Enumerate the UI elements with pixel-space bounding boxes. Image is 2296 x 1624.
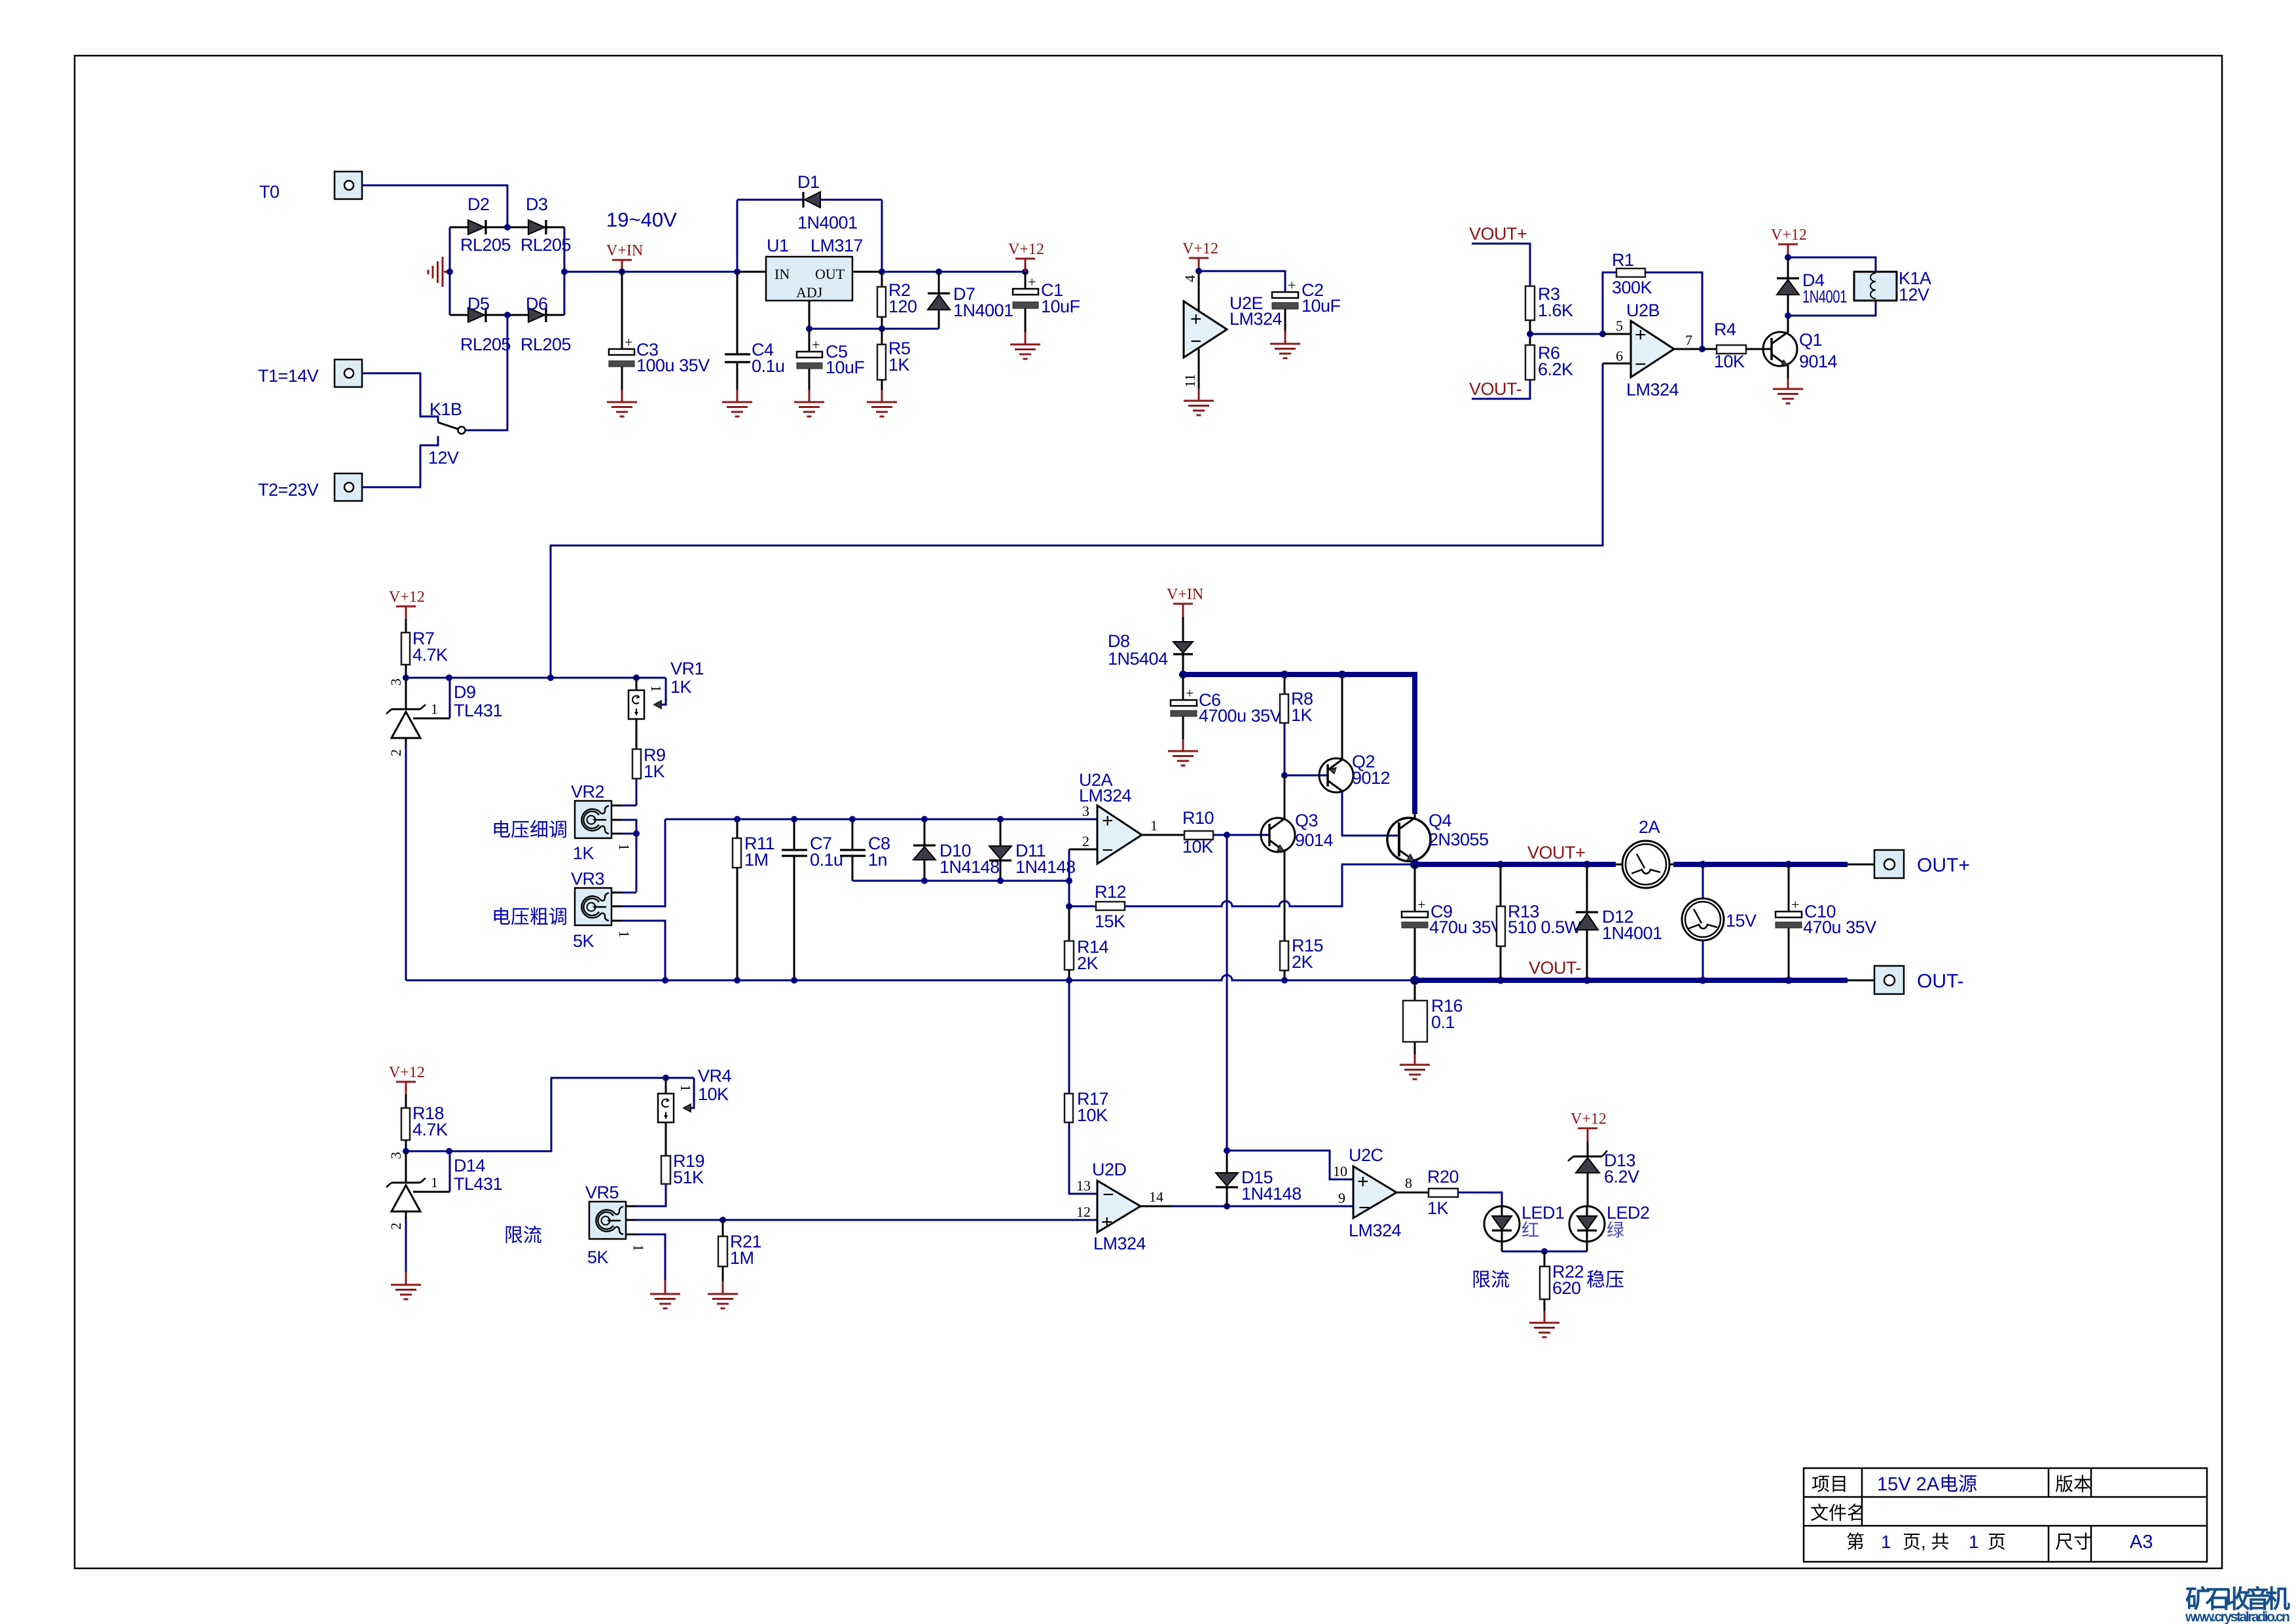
svg-text:OUT+: OUT+: [1917, 855, 1970, 876]
svg-text:10K: 10K: [1714, 352, 1745, 371]
svg-text:VR2: VR2: [571, 782, 604, 802]
junction Q3 collector node: [1281, 772, 1288, 779]
svg-text:1K: 1K: [573, 843, 594, 863]
svg-text:VOUT-: VOUT-: [1529, 958, 1581, 978]
ground R16: [1400, 1065, 1430, 1079]
svg-text:2K: 2K: [1077, 953, 1099, 973]
svg-text:2: 2: [388, 749, 404, 756]
junction VR3 low node: [662, 977, 668, 984]
svg-text:7: 7: [1685, 332, 1692, 348]
svg-text:4: 4: [1182, 275, 1198, 282]
svg-text:OUT: OUT: [815, 266, 845, 282]
svg-text:限流: 限流: [504, 1225, 542, 1246]
svg-text:1: 1: [1150, 817, 1157, 834]
svg-text:1: 1: [616, 843, 632, 851]
op-amp U2A: [1069, 805, 1184, 864]
svg-text:1: 1: [648, 685, 665, 692]
svg-text:1: 1: [1881, 1532, 1891, 1552]
svg-text:1M: 1M: [744, 850, 769, 870]
svg-text:D8: D8: [1108, 631, 1130, 651]
diode D15 1N4148: [1216, 1151, 1238, 1206]
shunt reference D14 TL431: [386, 1151, 450, 1220]
svg-text:6: 6: [1616, 348, 1623, 364]
wire U1 OUT stub: [852, 271, 882, 273]
wire D9 anode to common rail: [405, 747, 407, 980]
resistor R12: [1069, 864, 1414, 910]
svg-text:LM324: LM324: [1093, 1234, 1146, 1253]
svg-text:−: −: [1635, 354, 1647, 375]
terminal T1: [335, 360, 362, 387]
svg-text:−: −: [1102, 840, 1114, 861]
junction C7 bottom: [791, 977, 797, 984]
svg-text:U2B: U2B: [1626, 301, 1660, 320]
wire Q3 collector to Q2 base: [1285, 775, 1328, 777]
svg-text:3: 3: [388, 678, 404, 686]
svg-text:0.1: 0.1: [1431, 1012, 1455, 1032]
svg-text:8: 8: [1405, 1175, 1412, 1191]
junction C8 top: [849, 816, 856, 822]
junction D12 low: [1584, 977, 1591, 984]
terminal T0: [335, 172, 362, 199]
diode D5 RL205: [468, 308, 486, 322]
ammeter 2A: [1616, 841, 1673, 888]
svg-text:R4: R4: [1714, 320, 1736, 339]
svg-text:TL431: TL431: [454, 1174, 502, 1194]
junction 15V meter low: [1700, 977, 1707, 984]
wire VOUT+ thick rail left: [1415, 862, 1616, 867]
wire D1 right leg: [881, 200, 883, 272]
terminal T2: [335, 473, 362, 501]
svg-text:1K: 1K: [670, 677, 692, 697]
junction R13 low: [1497, 977, 1504, 984]
junction R11 bottom: [734, 977, 740, 984]
junction pin2 R12 node: [1066, 903, 1072, 910]
svg-text:300K: 300K: [1612, 278, 1652, 297]
svg-text:120: 120: [888, 297, 917, 316]
title block: [1804, 1468, 2207, 1562]
svg-text:15K: 15K: [1095, 912, 1125, 931]
svg-text:LED2: LED2: [1607, 1203, 1650, 1223]
trimmer VR4: [658, 1078, 694, 1122]
svg-text:5K: 5K: [587, 1247, 609, 1267]
diode D6 RL205: [528, 308, 546, 322]
ground D14: [391, 1285, 421, 1299]
svg-text:9: 9: [1338, 1190, 1345, 1206]
wire ADJ rail: [809, 328, 939, 330]
resistor R20: [1429, 1189, 1502, 1206]
svg-text:版本: 版本: [2055, 1474, 2092, 1494]
svg-text:D5: D5: [467, 294, 490, 314]
svg-text:红: 红: [1522, 1221, 1539, 1240]
ground Q1: [1773, 389, 1803, 403]
wire U2A plus rail: [665, 819, 1097, 821]
op-amp U2C: [1353, 1166, 1429, 1219]
wire thick V+ bus: [1183, 674, 1415, 814]
svg-text:620: 620: [1552, 1278, 1581, 1298]
resistor R21: [718, 1220, 727, 1293]
wire bridge left vertical: [449, 227, 451, 315]
svg-text:1N4001: 1N4001: [1802, 287, 1847, 306]
svg-text:15V: 15V: [1726, 911, 1757, 931]
svg-text:51K: 51K: [673, 1168, 704, 1187]
resistor R13: [1497, 864, 1505, 980]
junction VOUT+ main node: [1410, 860, 1419, 869]
capacitor C7: [782, 819, 807, 980]
junction sense node: [547, 674, 554, 681]
svg-text:10uF: 10uF: [826, 358, 865, 377]
ground C2: [1270, 344, 1300, 358]
junction R13 top: [1497, 861, 1504, 868]
svg-text:+: +: [1417, 896, 1425, 913]
capacitor C10: [1776, 864, 1802, 980]
svg-text:−: −: [1190, 331, 1202, 352]
svg-text:470u 35V: 470u 35V: [1803, 917, 1876, 937]
resistor R11: [733, 819, 741, 980]
svg-text:+: +: [1635, 324, 1647, 346]
wire VOUT- common rail thin: [406, 975, 1415, 980]
wire D14 anode red stub: [405, 1272, 407, 1284]
junction D9 ref node: [446, 674, 452, 681]
svg-text:V+12: V+12: [389, 589, 425, 606]
svg-text:V+12: V+12: [1008, 241, 1044, 258]
junction D7 node: [936, 268, 942, 275]
svg-text:T2=23V: T2=23V: [258, 480, 319, 500]
svg-text:VOUT-: VOUT-: [1469, 379, 1522, 399]
wire pin6 sense line: [551, 363, 1603, 678]
junction D14 ref node: [446, 1148, 452, 1154]
svg-text:U2D: U2D: [1092, 1160, 1127, 1179]
svg-text:11: 11: [1182, 374, 1198, 388]
svg-text:K1B: K1B: [429, 399, 462, 419]
wire bridge top row: [450, 227, 564, 229]
zener D13 6.2V: [1568, 1141, 1607, 1206]
junction U2E V+ node: [1195, 268, 1202, 274]
svg-text:9014: 9014: [1295, 830, 1334, 850]
junction VOUT- main node: [1410, 976, 1419, 985]
junction bridge bottom: [504, 312, 511, 318]
svg-text:0.1u: 0.1u: [752, 356, 785, 376]
ground U2E: [1184, 401, 1214, 415]
svg-text:Q1: Q1: [1799, 330, 1822, 350]
svg-text:10K: 10K: [1077, 1105, 1108, 1125]
svg-text:4.7K: 4.7K: [412, 645, 448, 665]
junction R8 bus node: [1281, 671, 1288, 678]
svg-text:VR3: VR3: [571, 869, 604, 889]
svg-text:0.1u: 0.1u: [810, 850, 843, 870]
svg-text:D1: D1: [797, 172, 820, 192]
svg-text:VR5: VR5: [585, 1183, 619, 1202]
junction Q1 collector node: [1785, 312, 1791, 319]
junction U1 IN node: [734, 268, 740, 275]
junction bridge top: [504, 224, 511, 231]
junction R10 node: [1224, 832, 1230, 838]
junction D8 node: [1179, 671, 1187, 678]
junction D15 low node: [1224, 1203, 1230, 1209]
junction R11 top: [734, 816, 740, 822]
junction ADJ node: [806, 325, 812, 332]
wire OUT rail: [882, 271, 1025, 273]
svg-text:项目: 项目: [1812, 1474, 1848, 1494]
svg-text:2: 2: [388, 1223, 404, 1230]
wire U1 ADJ stub: [809, 301, 811, 329]
ground C1: [1010, 344, 1040, 359]
svg-text:1: 1: [1969, 1532, 1979, 1552]
voltmeter 15V: [1682, 864, 1724, 980]
junction D11 top: [997, 816, 1004, 822]
resistor R5: [877, 329, 886, 401]
svg-text:+: +: [1357, 1171, 1369, 1192]
svg-text:稳压: 稳压: [1586, 1269, 1624, 1291]
junction V+IN: [619, 268, 625, 275]
potentiometer VR3: [575, 819, 665, 980]
svg-text:14: 14: [1149, 1189, 1163, 1205]
svg-text:LM324: LM324: [1349, 1221, 1402, 1240]
svg-text:OUT-: OUT-: [1917, 970, 1964, 992]
svg-text:−: −: [1102, 1184, 1114, 1206]
junction D11 bottom: [997, 877, 1004, 884]
svg-text:6.2V: 6.2V: [1604, 1167, 1639, 1187]
svg-text:文件名: 文件名: [1810, 1503, 1865, 1523]
ground VR5: [650, 1294, 680, 1308]
svg-text:T1=14V: T1=14V: [258, 366, 319, 386]
svg-text:V+12: V+12: [389, 1064, 425, 1081]
junction pin2 clamp node: [1066, 877, 1072, 884]
wire U2E to C2: [1199, 271, 1285, 292]
junction divider node: [1527, 331, 1533, 337]
transistor Q3 9014: [1261, 775, 1295, 941]
wire LED cathode rail: [1502, 1251, 1587, 1253]
svg-text:1K: 1K: [1291, 705, 1313, 725]
svg-text:LED1: LED1: [1522, 1203, 1565, 1223]
wire clamp bottom rail: [852, 880, 1069, 882]
resistor R2: [877, 272, 886, 329]
LED LED2 green: [1569, 1206, 1605, 1251]
trimmer VR1: [629, 678, 666, 719]
capacitor C3: [609, 272, 634, 401]
junction pin5 node: [1599, 331, 1606, 337]
resistor R7: [401, 619, 410, 678]
junction D12 top: [1584, 861, 1591, 868]
wire T1 to K1B top contact: [362, 373, 438, 422]
svg-text:1M: 1M: [730, 1248, 754, 1268]
power flag V+12 at U2E: [1182, 240, 1218, 271]
junction R15 low node: [1281, 977, 1288, 984]
svg-text:RL205: RL205: [460, 235, 511, 255]
svg-text:LM317: LM317: [811, 236, 863, 255]
power flag V+IN at D8: [1167, 586, 1203, 617]
svg-text:2K: 2K: [1292, 952, 1313, 972]
junction R7 node: [403, 674, 409, 681]
svg-text:1: 1: [678, 1084, 694, 1092]
svg-text:+: +: [1102, 810, 1114, 832]
svg-text:D3: D3: [526, 194, 548, 214]
wire U2D out to U2C pin9: [1172, 1206, 1353, 1208]
svg-text:4.7K: 4.7K: [412, 1120, 448, 1139]
junction pin7 node: [1699, 346, 1705, 352]
net label VOUT+: [1469, 224, 1530, 286]
svg-text:1K: 1K: [888, 355, 910, 375]
svg-text:D9: D9: [454, 682, 476, 702]
svg-text:LM324: LM324: [1230, 309, 1283, 329]
potentiometer VR2: [575, 801, 636, 838]
svg-text:12V: 12V: [428, 448, 459, 468]
junction D15 top node: [1224, 1147, 1230, 1154]
svg-text:页: 页: [1988, 1532, 2006, 1552]
transistor Q2 9012: [1319, 674, 1353, 792]
svg-text:1N4001: 1N4001: [1602, 923, 1662, 943]
junction relay top: [1785, 254, 1791, 261]
svg-text:19~40V: 19~40V: [606, 208, 677, 231]
svg-text:VR4: VR4: [698, 1066, 732, 1086]
resistor R8: [1280, 674, 1288, 775]
svg-text:D6: D6: [526, 294, 548, 314]
svg-text:U2C: U2C: [1349, 1145, 1383, 1165]
wire bridge to LM317 IN: [564, 271, 766, 273]
junction OUT node: [879, 268, 885, 275]
svg-text:TL431: TL431: [454, 701, 502, 720]
svg-text:1K: 1K: [1427, 1198, 1449, 1218]
svg-text:1N4148: 1N4148: [1241, 1184, 1302, 1204]
junction 15V meter top: [1700, 861, 1707, 868]
svg-text:1: 1: [616, 931, 632, 938]
resistor R1 feedback: [1603, 268, 1702, 349]
junction C7 top: [791, 816, 797, 822]
junction VR2 wiper tie: [633, 830, 640, 837]
svg-text:+: +: [1791, 896, 1799, 913]
svg-text:10uF: 10uF: [1041, 297, 1080, 316]
svg-text:2A: 2A: [1639, 817, 1660, 837]
junction R5 node: [879, 325, 885, 332]
op-amp U2E power section: [1184, 271, 1227, 400]
svg-text:+: +: [1288, 277, 1296, 293]
svg-text:470u 35V: 470u 35V: [1429, 917, 1503, 937]
resistor R4: [1702, 345, 1772, 354]
terminal OUT+: [1848, 850, 1904, 878]
svg-text:V+12: V+12: [1182, 240, 1218, 257]
wire Q2 collector to Q4 base: [1342, 791, 1399, 836]
wire relay top branch: [1788, 257, 1876, 272]
svg-text:13: 13: [1076, 1177, 1091, 1194]
junction D10 top: [921, 816, 928, 822]
svg-text:尺寸: 尺寸: [2055, 1532, 2092, 1552]
resistor R14: [1065, 906, 1074, 980]
svg-text:Q3: Q3: [1295, 811, 1318, 830]
svg-text:10uF: 10uF: [1302, 296, 1341, 316]
capacitor C9: [1402, 864, 1428, 980]
resistor R22: [1540, 1251, 1550, 1322]
power flag V+IN: [606, 242, 643, 272]
svg-text:页, 共: 页, 共: [1903, 1532, 1950, 1552]
svg-text:10K: 10K: [1182, 837, 1213, 857]
svg-text:−: −: [1358, 1197, 1370, 1219]
svg-text:1N4001: 1N4001: [797, 213, 858, 232]
svg-text:D14: D14: [454, 1156, 486, 1175]
svg-text:12: 12: [1076, 1204, 1091, 1220]
terminal OUT-: [1848, 966, 1904, 994]
wire lower reference rail: [406, 1078, 694, 1151]
wire reference rail: [406, 677, 666, 679]
svg-text:1K: 1K: [644, 762, 665, 781]
svg-text:15V 2A电源: 15V 2A电源: [1877, 1473, 1977, 1495]
wire bridge bottom row: [450, 314, 564, 316]
ground C5: [794, 402, 824, 416]
ground C6: [1168, 751, 1198, 766]
wire T2 to K1B bottom contact: [362, 436, 438, 487]
svg-text:R1: R1: [1612, 250, 1634, 270]
svg-text:VOUT+: VOUT+: [1527, 843, 1585, 862]
capacitor C2: [1272, 277, 1298, 343]
svg-text:www.crystalradio.cn: www.crystalradio.cn: [2185, 1610, 2290, 1624]
svg-text:U1: U1: [767, 236, 789, 255]
svg-text:VR1: VR1: [670, 659, 704, 678]
switch K1B blade: [438, 422, 465, 434]
svg-text:RL205: RL205: [520, 235, 571, 255]
wire U1 IN stub: [737, 271, 766, 273]
junction VR4 node: [663, 1075, 669, 1081]
svg-text:V+IN: V+IN: [1167, 586, 1203, 603]
svg-text:+: +: [1028, 274, 1036, 290]
junction C10 top: [1785, 861, 1793, 868]
svg-text:9014: 9014: [1799, 352, 1838, 371]
svg-text:R20: R20: [1427, 1167, 1459, 1187]
wire divider to pin5: [1530, 333, 1631, 335]
ground at bridge left (rotated): [428, 257, 450, 287]
junction R14 low node: [1066, 977, 1072, 984]
wire VOUT+ thick rail right: [1673, 862, 1848, 867]
ground R22: [1529, 1323, 1559, 1337]
power flag V+12 relay: [1771, 227, 1807, 257]
wire relay bottom branch: [1788, 301, 1876, 316]
junction R21 node: [720, 1217, 726, 1223]
capacitor C6: [1171, 674, 1197, 750]
svg-text:+: +: [812, 337, 820, 353]
wire VR2 to VR3: [636, 834, 638, 892]
resistor R10: [1184, 831, 1269, 840]
svg-text:ADJ: ADJ: [796, 284, 823, 301]
svg-text:2: 2: [1082, 833, 1089, 849]
svg-text:1n: 1n: [868, 850, 887, 870]
junction C1 node: [1022, 268, 1029, 275]
svg-text:V+12: V+12: [1571, 1111, 1607, 1128]
diode D10 1N4148: [913, 819, 936, 881]
svg-text:Q4: Q4: [1429, 811, 1452, 830]
svg-text:V+IN: V+IN: [606, 242, 643, 259]
resistor R9: [632, 719, 641, 805]
resistor R19: [636, 1122, 670, 1206]
junction R18 node: [403, 1148, 409, 1154]
svg-text:+: +: [625, 334, 632, 350]
wire D14 anode: [405, 1220, 407, 1272]
junction R22 node: [1541, 1248, 1548, 1255]
svg-text:10K: 10K: [698, 1084, 729, 1104]
junction VR1 node: [633, 674, 640, 681]
wire VOUT- thick rail: [1415, 978, 1848, 983]
svg-text:D2: D2: [467, 194, 490, 214]
resistor R18: [401, 1094, 410, 1151]
svg-text:R10: R10: [1182, 808, 1214, 828]
svg-text:1.6K: 1.6K: [1538, 301, 1573, 320]
diode D4 1N4001: [1777, 257, 1799, 316]
svg-text:2N3055: 2N3055: [1429, 830, 1489, 849]
svg-text:R12: R12: [1095, 882, 1126, 902]
svg-text:1: 1: [431, 1174, 438, 1190]
svg-text:3: 3: [388, 1152, 404, 1159]
capacitor C5: [797, 329, 822, 401]
power flag V+12 lower: [389, 1064, 425, 1094]
svg-text:第: 第: [1846, 1532, 1865, 1552]
ground R21: [708, 1294, 738, 1308]
svg-text:+: +: [1101, 1211, 1113, 1233]
